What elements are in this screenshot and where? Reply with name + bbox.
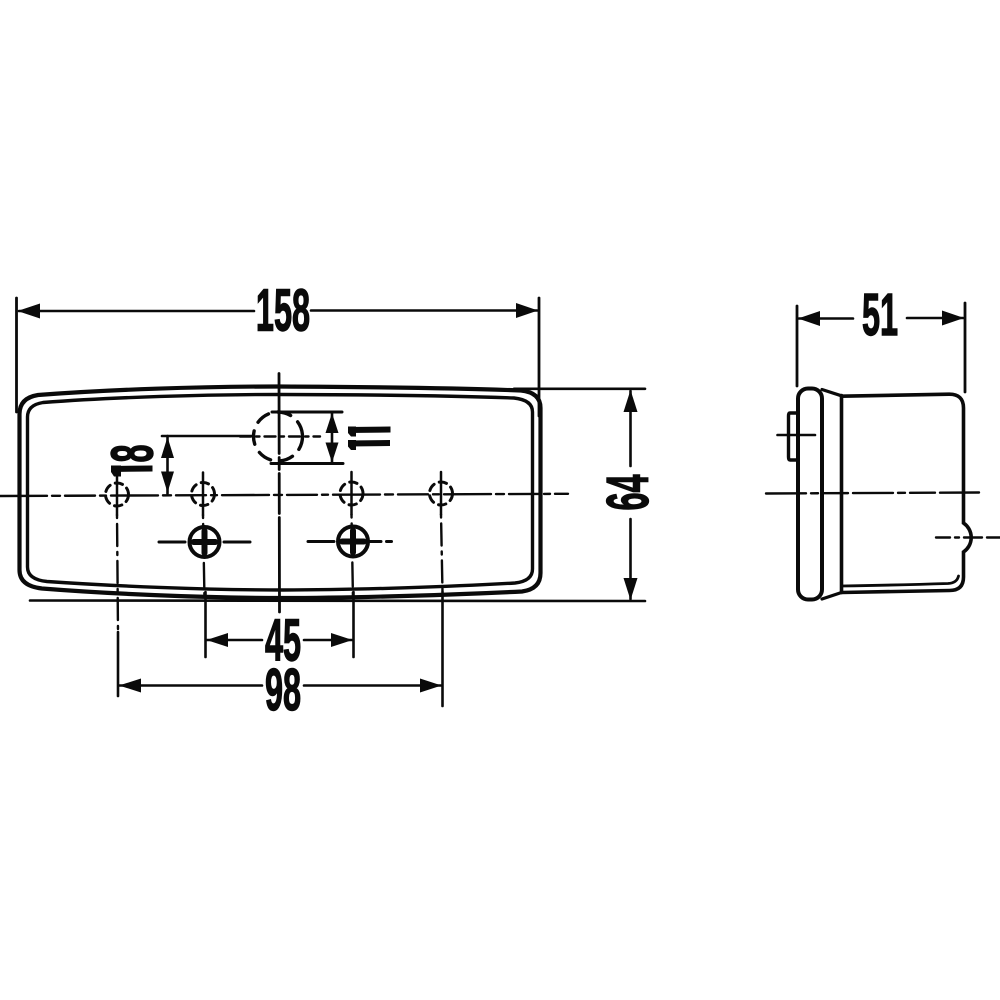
hole 2 vertical tick	[202, 473, 205, 516]
dim 45: right arrowhead	[331, 633, 353, 647]
vertical centerline front view	[278, 374, 281, 613]
side view: bump centerline	[936, 536, 1000, 538]
side view: small tab on lens left	[789, 413, 798, 460]
front view: lamp body inner outline	[28, 395, 533, 591]
front view: lamp body outer outline	[20, 387, 541, 599]
svg-text:64: 64	[596, 474, 662, 510]
dim 158: right extension line	[538, 298, 541, 416]
side view: tab centerline tick	[778, 434, 816, 437]
side view: bottom step connector	[822, 593, 842, 600]
dim 98: left arrowhead	[119, 679, 141, 693]
dim 64: top extension line	[514, 387, 645, 390]
dim 18: vertical arrow line	[166, 436, 169, 494]
dim 51: left arrowhead	[798, 311, 820, 326]
dim 11: down arrowhead	[326, 443, 339, 463]
dim 18: reference line at circle center height	[162, 435, 252, 438]
dim 98: right extension line	[441, 592, 444, 706]
hole 1 centerline down to 98 extension	[117, 515, 118, 632]
screw 1 phillips cross	[194, 531, 216, 553]
dim 158: left arrowhead	[18, 304, 41, 319]
hole 1 vertical tick	[116, 473, 119, 515]
hole 4 centerline down to 98 extension	[441, 515, 443, 593]
dim 18: up arrowhead	[161, 437, 174, 458]
dim 11: top tick	[272, 411, 342, 414]
mounting hole 4 dashed circle	[430, 482, 453, 505]
dim 158: left extension line	[15, 298, 18, 412]
dim 11: vertical arrow line	[331, 412, 334, 464]
hole 3 centerline down through screw	[352, 515, 354, 601]
hole 2 centerline down through screw	[203, 515, 205, 600]
dim 51: right arrowhead	[942, 311, 964, 326]
dim 98: left extension line	[117, 632, 120, 696]
hole 4 vertical tick	[440, 472, 443, 515]
side view: housing inner bottom line	[842, 576, 959, 586]
dim 64: up arrowhead	[624, 390, 638, 412]
dim 158: right arrowhead	[516, 303, 538, 318]
dim 158: dimension line	[19, 309, 537, 312]
top circle (11 dia hole), dashed	[254, 412, 303, 461]
dim 45: right extension line	[352, 592, 355, 657]
side view: housing front face line	[840, 396, 844, 593]
dim 98: dimension line	[120, 684, 442, 687]
side view: housing outline	[842, 394, 972, 592]
hole 3 vertical tick	[350, 472, 353, 515]
screw 2 head circle	[338, 527, 368, 557]
side view: top step connector	[822, 390, 842, 396]
svg-text:158: 158	[256, 278, 310, 344]
dim 11: bottom tick	[271, 462, 343, 465]
dim 98: right arrowhead	[420, 679, 442, 693]
dim 45: left arrowhead	[207, 633, 229, 647]
mounting hole 3 dashed circle	[340, 482, 363, 505]
screw 1 side centerline ticks	[159, 541, 250, 544]
screw 2 side centerline ticks	[308, 540, 334, 543]
side view: lens strip outline	[798, 389, 822, 600]
dim 45: dimension line	[207, 639, 352, 642]
dim 51: dimension line	[799, 317, 963, 320]
horizontal centerline of top circle	[240, 435, 320, 437]
svg-text:51: 51	[862, 283, 898, 349]
mounting hole 1 dashed circle	[106, 483, 129, 506]
horizontal centerline through front view	[0, 494, 568, 496]
dim 11 label (rotated), drawn as strokes	[348, 427, 391, 451]
mounting hole 2 dashed circle	[192, 483, 215, 506]
dim 64: bottom extension line	[30, 599, 645, 602]
screw 2 phillips cross	[342, 531, 364, 553]
dim 51: left extension line	[796, 306, 799, 386]
dim 18: down arrowhead	[161, 472, 174, 493]
dim 64: down arrowhead	[624, 578, 638, 600]
side view: main horizontal centerline	[766, 493, 979, 494]
dim 51: right extension line	[964, 303, 967, 392]
dim 45: left extension line	[204, 592, 207, 657]
screw 1 head circle	[190, 527, 220, 557]
dim 11: up arrowhead	[326, 413, 339, 433]
dim 64: vertical dimension line	[629, 391, 632, 599]
svg-text:98: 98	[265, 658, 301, 724]
svg-text:8: 8	[100, 444, 166, 462]
